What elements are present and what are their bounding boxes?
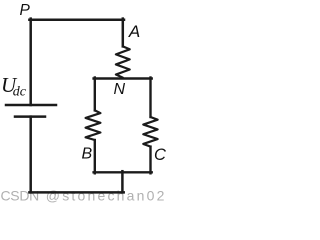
svg-text:N: N	[114, 81, 126, 98]
svg-text:A: A	[128, 22, 140, 41]
svg-text:dc: dc	[13, 85, 27, 100]
svg-text:@stonechan02: @stonechan02	[46, 188, 167, 204]
svg-text:B: B	[82, 146, 93, 163]
svg-text:CSDN: CSDN	[1, 188, 39, 204]
svg-text:P: P	[20, 2, 31, 19]
svg-text:C: C	[154, 146, 166, 164]
